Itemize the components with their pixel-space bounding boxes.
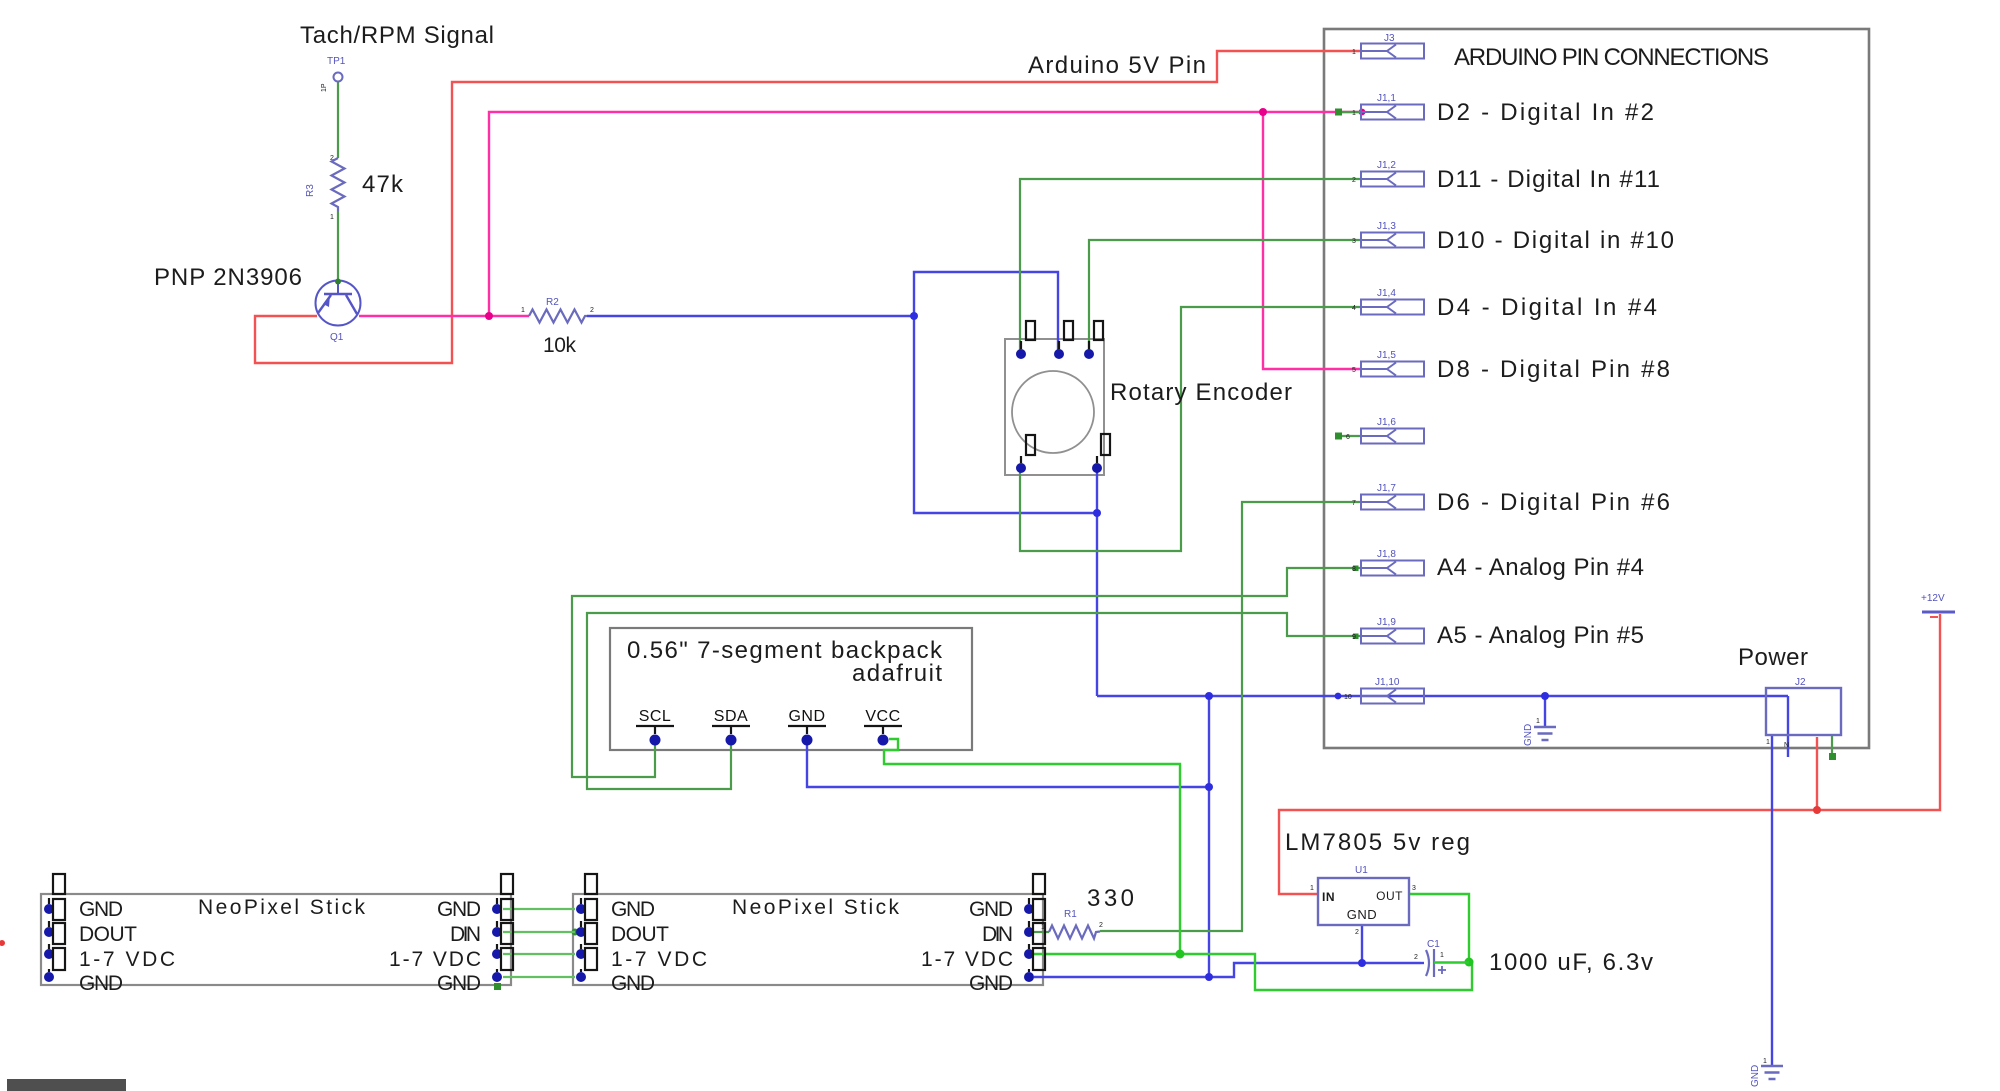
- svg-text:Rotary Encoder: Rotary Encoder: [1110, 379, 1292, 406]
- svg-text:J1,2: J1,2: [1377, 160, 1396, 171]
- svg-text:4: 4: [1352, 305, 1356, 312]
- svg-text:A5 - Analog Pin #5: A5 - Analog Pin #5: [1437, 622, 1644, 649]
- svg-text:VCC: VCC: [865, 708, 900, 725]
- svg-text:1: 1: [330, 214, 334, 221]
- svg-text:J2: J2: [1795, 677, 1806, 688]
- svg-text:LM7805 5v reg: LM7805 5v reg: [1285, 829, 1470, 856]
- svg-text:D6 - Digital Pin #6: D6 - Digital Pin #6: [1437, 489, 1670, 516]
- svg-text:J1,5: J1,5: [1377, 350, 1396, 361]
- svg-text:TP1: TP1: [327, 56, 346, 67]
- svg-text:GND: GND: [79, 972, 123, 995]
- svg-text:1: 1: [521, 307, 525, 314]
- svg-text:8: 8: [1352, 566, 1356, 573]
- svg-text:GND: GND: [969, 898, 1013, 921]
- svg-text:1-7 VDC: 1-7 VDC: [611, 948, 707, 971]
- svg-text:A4 - Analog Pin #4: A4 - Analog Pin #4: [1437, 554, 1644, 581]
- svg-text:GND: GND: [437, 972, 481, 995]
- svg-text:1: 1: [1310, 885, 1314, 892]
- svg-text:3: 3: [1412, 885, 1416, 892]
- svg-text:1P: 1P: [321, 83, 328, 92]
- svg-text:DIN: DIN: [982, 923, 1013, 946]
- svg-text:R1: R1: [1064, 909, 1077, 920]
- svg-text:SDA: SDA: [714, 708, 748, 725]
- svg-text:330: 330: [1087, 885, 1134, 912]
- svg-text:D11 - Digital In #11: D11 - Digital In #11: [1437, 166, 1660, 193]
- svg-text:DIN: DIN: [450, 923, 481, 946]
- svg-text:D10 - Digital in #10: D10 - Digital in #10: [1437, 227, 1674, 254]
- svg-text:DOUT: DOUT: [611, 923, 669, 946]
- svg-text:J1,9: J1,9: [1377, 617, 1396, 628]
- svg-text:2: 2: [330, 155, 334, 162]
- svg-text:Q1: Q1: [330, 332, 344, 343]
- svg-text:1: 1: [1352, 49, 1356, 56]
- svg-text:PNP 2N3906: PNP 2N3906: [154, 264, 302, 291]
- svg-text:10: 10: [1344, 694, 1352, 701]
- svg-text:D8 - Digital Pin #8: D8 - Digital Pin #8: [1437, 356, 1670, 383]
- svg-text:J1,1: J1,1: [1377, 93, 1396, 104]
- svg-text:C1: C1: [1427, 939, 1440, 950]
- svg-text:J1,10: J1,10: [1375, 677, 1400, 688]
- svg-text:GND: GND: [611, 972, 655, 995]
- svg-text:1: 1: [1352, 110, 1356, 117]
- svg-text:J1,8: J1,8: [1377, 549, 1396, 560]
- svg-text:Arduino 5V Pin: Arduino 5V Pin: [1028, 52, 1206, 79]
- svg-text:J1,7: J1,7: [1377, 483, 1396, 494]
- svg-text:2: 2: [590, 307, 594, 314]
- svg-text:J1,4: J1,4: [1377, 288, 1396, 299]
- svg-text:U1: U1: [1355, 865, 1368, 876]
- svg-text:ARDUINO PIN CONNECTIONS: ARDUINO PIN CONNECTIONS: [1454, 44, 1769, 71]
- svg-text:N: N: [1784, 742, 1789, 749]
- svg-text:1: 1: [1766, 739, 1770, 746]
- svg-text:OUT: OUT: [1376, 889, 1403, 903]
- svg-text:GND: GND: [79, 898, 123, 921]
- svg-text:J1,3: J1,3: [1377, 221, 1396, 232]
- svg-text:47k: 47k: [362, 171, 404, 198]
- svg-text:R3: R3: [305, 184, 316, 197]
- svg-text:D4 - Digital In #4: D4 - Digital In #4: [1437, 294, 1657, 321]
- svg-text:GND: GND: [969, 972, 1013, 995]
- svg-text:GND: GND: [1347, 907, 1377, 922]
- svg-text:GND: GND: [1523, 724, 1534, 746]
- svg-text:R2: R2: [546, 297, 559, 308]
- svg-text:6: 6: [1346, 434, 1350, 441]
- svg-text:SCL: SCL: [639, 708, 672, 725]
- svg-text:GND: GND: [437, 898, 481, 921]
- svg-text:1-7 VDC: 1-7 VDC: [79, 948, 175, 971]
- svg-text:DOUT: DOUT: [79, 923, 137, 946]
- svg-text:GND: GND: [788, 708, 825, 725]
- svg-text:IN: IN: [1322, 890, 1335, 904]
- svg-text:10k: 10k: [543, 334, 577, 357]
- svg-text:D2 - Digital In #2: D2 - Digital In #2: [1437, 99, 1654, 126]
- svg-text:1: 1: [1041, 924, 1045, 931]
- svg-text:1: 1: [1536, 718, 1540, 725]
- svg-text:Tach/RPM Signal: Tach/RPM Signal: [300, 22, 494, 49]
- svg-text:1-7 VDC: 1-7 VDC: [921, 948, 1013, 971]
- svg-text:GND: GND: [611, 898, 655, 921]
- svg-text:1: 1: [1440, 952, 1444, 959]
- svg-text:9: 9: [1352, 634, 1356, 641]
- svg-text:J3: J3: [1384, 33, 1395, 44]
- svg-text:2: 2: [1414, 954, 1418, 961]
- svg-text:2: 2: [1352, 177, 1356, 184]
- svg-text:J1,6: J1,6: [1377, 417, 1396, 428]
- svg-text:1-7 VDC: 1-7 VDC: [389, 948, 481, 971]
- svg-text:1: 1: [1763, 1058, 1767, 1065]
- svg-text:3: 3: [1352, 238, 1356, 245]
- svg-text:Power: Power: [1738, 644, 1808, 671]
- svg-text:+12V: +12V: [1921, 593, 1945, 604]
- svg-text:7: 7: [1352, 500, 1356, 507]
- svg-text:2: 2: [1355, 929, 1359, 936]
- svg-text:5: 5: [1352, 367, 1356, 374]
- svg-text:2: 2: [1099, 922, 1103, 929]
- svg-text:GND: GND: [1750, 1065, 1761, 1087]
